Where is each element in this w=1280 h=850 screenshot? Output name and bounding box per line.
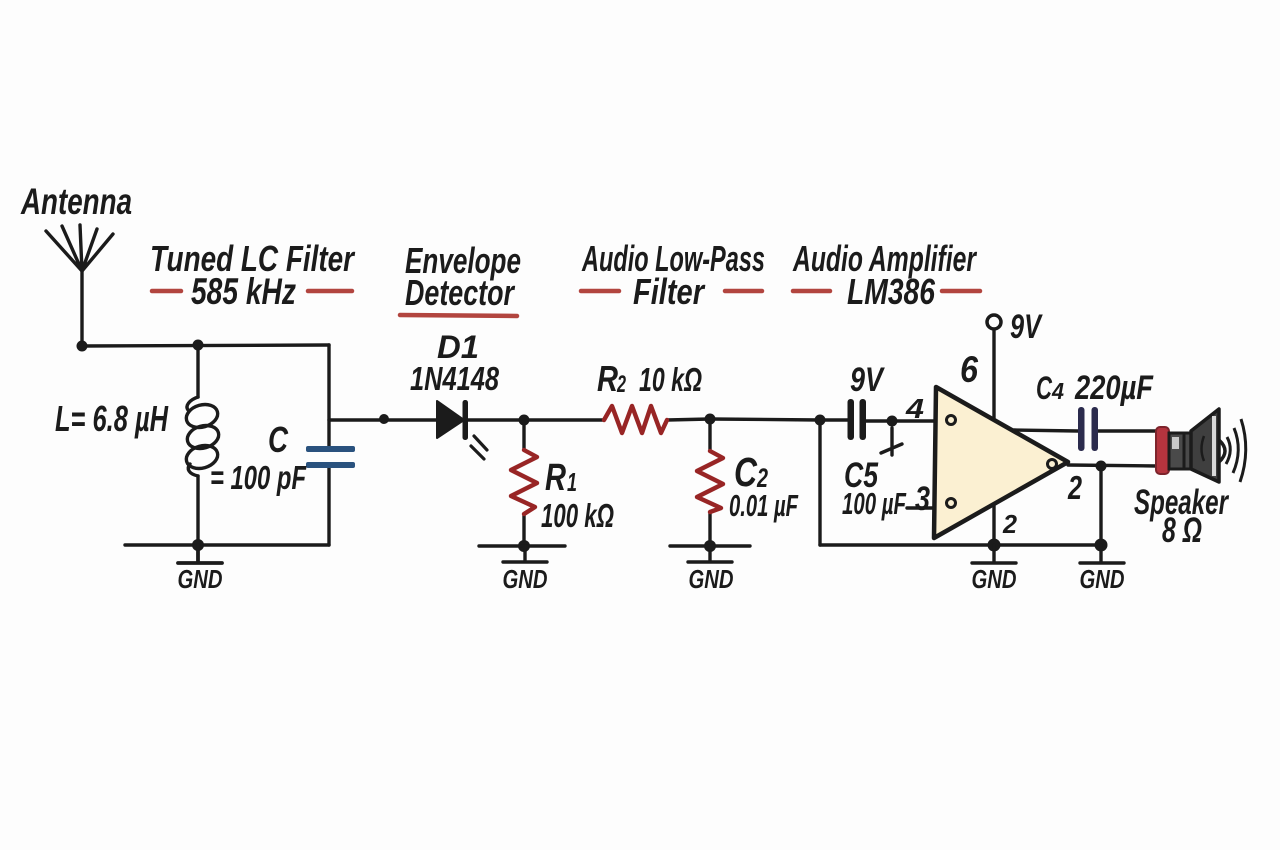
svg-text:585 kHz: 585 kHz xyxy=(191,271,296,312)
svg-text:Antenna: Antenna xyxy=(20,181,132,222)
svg-text:8 Ω: 8 Ω xyxy=(1162,511,1202,550)
svg-text:GND: GND xyxy=(1080,564,1125,594)
svg-text:LM386: LM386 xyxy=(847,271,936,312)
svg-text:3: 3 xyxy=(915,480,930,518)
svg-text:C: C xyxy=(268,419,289,460)
svg-text:220µF: 220µF xyxy=(1074,369,1154,407)
svg-text:2: 2 xyxy=(1002,509,1017,539)
svg-text:GND: GND xyxy=(689,564,734,594)
svg-text:L= 6.8 µH: L= 6.8 µH xyxy=(55,398,169,439)
svg-text:R: R xyxy=(545,457,566,499)
svg-text:GND: GND xyxy=(972,564,1017,594)
svg-text:GND: GND xyxy=(178,564,223,594)
svg-text:100 µF: 100 µF xyxy=(842,486,907,521)
svg-text:C: C xyxy=(1036,370,1053,406)
svg-text:Filter: Filter xyxy=(633,271,706,312)
svg-text:9V: 9V xyxy=(1010,308,1043,346)
svg-text:2: 2 xyxy=(1067,469,1082,506)
svg-text:0.01 µF: 0.01 µF xyxy=(729,488,799,523)
svg-text:Detector: Detector xyxy=(405,272,515,313)
svg-text:9V: 9V xyxy=(850,361,886,399)
svg-text:10 kΩ: 10 kΩ xyxy=(639,361,702,398)
svg-text:100 kΩ: 100 kΩ xyxy=(541,497,614,534)
svg-text:R: R xyxy=(597,358,618,399)
svg-text:= 100 pF: = 100 pF xyxy=(210,459,307,496)
svg-text:1N4148: 1N4148 xyxy=(410,360,499,397)
svg-text:1: 1 xyxy=(567,467,577,497)
svg-text:2: 2 xyxy=(616,371,626,398)
svg-text:4: 4 xyxy=(905,393,925,424)
svg-text:4: 4 xyxy=(1051,378,1064,404)
svg-text:6: 6 xyxy=(960,349,978,390)
svg-text:GND: GND xyxy=(503,564,548,594)
